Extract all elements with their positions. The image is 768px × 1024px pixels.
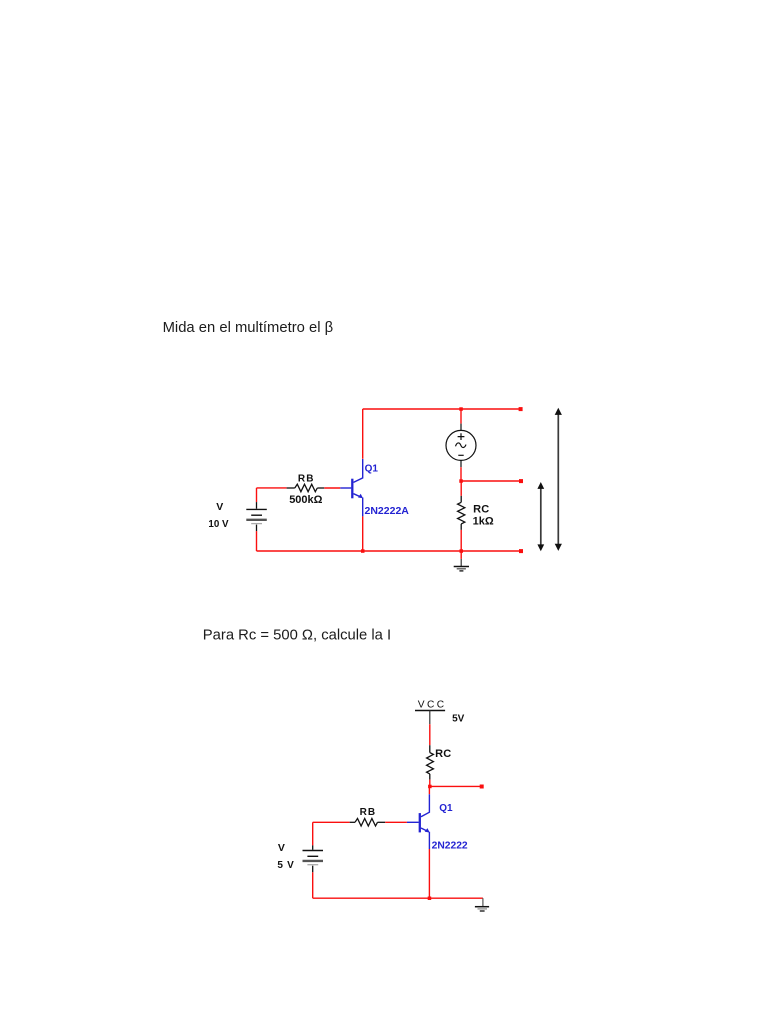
- svg-text:10 V: 10 V: [208, 519, 229, 530]
- svg-text:Para Rc = 500 Ω, calcule la I: Para Rc = 500 Ω, calcule la I: [203, 628, 391, 644]
- resistor RC2 zigzag: [427, 753, 434, 774]
- transistor Q1 (2N2222A): [340, 459, 363, 516]
- svg-text:RB: RB: [298, 474, 315, 485]
- wire: middle rail to RC red: [460, 481, 462, 496]
- node: top rail end dot: [519, 407, 523, 411]
- svg-text:V: V: [216, 501, 223, 513]
- svg-text:RC: RC: [435, 748, 451, 760]
- svg-text:V: V: [278, 842, 285, 854]
- svg-text:VCC: VCC: [418, 700, 447, 711]
- wire: collector stub rail: [430, 785, 482, 787]
- svg-text:5V: 5V: [452, 713, 465, 724]
- battery V2 plates: [303, 851, 324, 865]
- wire: ground2 stub: [482, 898, 484, 906]
- svg-text:Q1: Q1: [439, 803, 453, 814]
- svg-text:500kΩ: 500kΩ: [289, 494, 322, 506]
- wire: VCC stub black: [429, 711, 431, 725]
- wire: AC source top lead black: [460, 424, 462, 431]
- node: middle rail end dot: [519, 479, 523, 483]
- svg-text:5 V: 5 V: [277, 860, 294, 871]
- resistor RB2 right stub: [378, 821, 386, 823]
- AC source sine: [456, 443, 467, 448]
- measurement arrow tall: [555, 408, 562, 551]
- wire: battery top stub black: [256, 502, 258, 509]
- resistor RC bottom stub: [460, 524, 462, 530]
- node: junction collector: [428, 785, 432, 789]
- wire: emitter to bottom rail red: [362, 516, 364, 551]
- node: junction bottom rail / ground branch: [460, 549, 464, 553]
- wire: battery to RB red: [257, 487, 287, 489]
- AC source minus sign: [458, 454, 463, 456]
- wire: battery2 top lead red: [312, 822, 314, 845]
- wire: RC2 to collector node red: [429, 780, 431, 787]
- resistor RC zigzag: [458, 502, 465, 524]
- wire: battery2 bottom stub black: [312, 866, 314, 873]
- wire: ground lead black: [460, 559, 462, 566]
- wire: battery bottom lead red: [256, 531, 258, 551]
- wire: middle rail: [461, 480, 521, 482]
- AC source V1 circle: [446, 430, 476, 460]
- wire: base red left segment: [313, 821, 350, 823]
- svg-text:1kΩ: 1kΩ: [473, 516, 494, 528]
- svg-text:RB: RB: [360, 807, 377, 818]
- wire: battery bottom stub black: [256, 525, 258, 532]
- resistor RB left stub: [287, 487, 295, 489]
- wire: emitter to bottom rail red: [428, 849, 430, 898]
- wire: AC source bottom lead black: [460, 461, 462, 468]
- resistor RC2 bottom stub: [429, 774, 431, 780]
- VCC rail symbol: [415, 710, 445, 712]
- wire: RC to bottom rail red: [460, 530, 462, 551]
- node: junction top rail / AC source: [459, 407, 463, 411]
- wire: top rail: [363, 408, 521, 410]
- svg-text:RC: RC: [473, 503, 489, 515]
- transistor Q1 (2N2222): [407, 794, 430, 849]
- resistor RB2 left stub: [350, 821, 355, 823]
- battery V1 plates: [246, 509, 266, 523]
- resistor RC top stub: [460, 496, 462, 502]
- wire: collector riser red: [362, 409, 364, 459]
- node: junction bottom rail / emitter (c2): [428, 897, 432, 901]
- svg-text:Mida en el multímetro el β: Mida en el multímetro el β: [163, 320, 334, 336]
- node: junction bottom rail / emitter: [361, 549, 365, 553]
- measurement arrow short: [537, 482, 544, 551]
- node: bottom rail end dot: [519, 549, 523, 553]
- svg-text:2N2222: 2N2222: [432, 840, 468, 851]
- wire: AC source top lead red: [460, 409, 462, 424]
- wire: bottom rail (c2): [313, 897, 483, 899]
- resistor RB2 zigzag: [355, 819, 378, 827]
- wire: RB2 to base red: [385, 821, 407, 823]
- ground symbol GND1: [454, 567, 469, 571]
- resistor RB zigzag: [295, 484, 318, 492]
- node: junction middle rail: [459, 479, 463, 483]
- wire: battery top lead red: [256, 488, 258, 502]
- ground symbol GND2: [475, 907, 489, 911]
- node: collector rail end dot: [480, 785, 484, 789]
- wire: bottom rail: [257, 550, 521, 552]
- resistor RB right stub: [317, 487, 324, 489]
- wire: AC source bottom lead red: [460, 467, 462, 481]
- wire: RB to base red: [324, 487, 340, 489]
- svg-text:2N2222A: 2N2222A: [365, 505, 410, 517]
- wire: VCC to RC red: [429, 724, 431, 745]
- wire: collector riser red: [428, 786, 430, 794]
- resistor RC2 top stub: [429, 745, 431, 752]
- wire: battery2 top stub black: [312, 845, 314, 849]
- wire: ground lead red: [460, 551, 462, 559]
- wire: battery2 bottom lead red: [312, 872, 314, 898]
- svg-text:Q1: Q1: [365, 463, 379, 474]
- AC source plus sign: [458, 433, 465, 440]
